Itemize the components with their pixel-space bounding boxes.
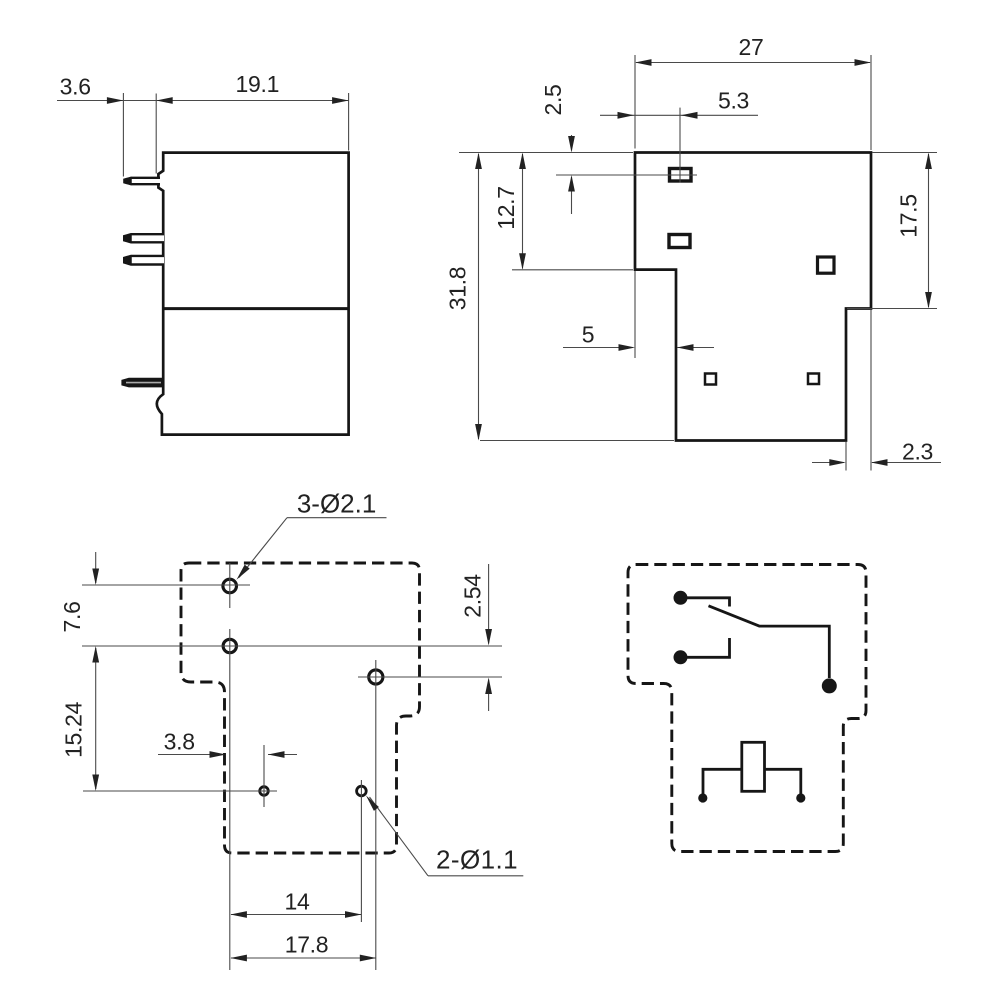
svg-text:5: 5 — [582, 321, 595, 347]
dimension 14 — [231, 914, 361, 916]
svg-text:2.5: 2.5 — [540, 84, 566, 115]
pin slot 1 — [670, 169, 692, 182]
pin 4 (bottom pin) — [123, 379, 164, 386]
dimension 15.24 — [95, 648, 97, 789]
coil right lead — [765, 769, 801, 794]
svg-text:3.8: 3.8 — [164, 729, 195, 755]
contact terminal dot 1 — [674, 591, 688, 605]
svg-text:31.8: 31.8 — [445, 267, 471, 311]
arrows 3.6 — [107, 97, 124, 104]
dimension 31.8 — [478, 154, 480, 439]
hole D (1.1mm) — [260, 787, 269, 796]
square hole large — [818, 257, 835, 273]
dimension 2.3 — [812, 462, 844, 464]
svg-text:7.6: 7.6 — [59, 601, 85, 632]
svg-text:17.5: 17.5 — [896, 194, 922, 238]
svg-text:2.3: 2.3 — [902, 438, 933, 464]
svg-text:5.3: 5.3 — [718, 87, 749, 113]
dimension 2.5 — [571, 135, 573, 151]
dimension 3.6 / 19.1 line — [57, 100, 349, 102]
hole A (2.1mm) — [223, 579, 237, 593]
svg-text:19.1: 19.1 — [236, 71, 280, 97]
arrow 19.1 right — [332, 97, 349, 104]
svg-text:2.54: 2.54 — [459, 574, 485, 618]
relay body side view — [157, 153, 349, 435]
dimension 17.5 — [928, 154, 930, 307]
svg-text:15.24: 15.24 — [60, 701, 86, 758]
svg-text:27: 27 — [739, 34, 764, 60]
pin 3 — [124, 256, 164, 265]
pin 2 — [124, 234, 164, 242]
pin slot 2 — [669, 235, 690, 248]
svg-text:2-Ø1.1: 2-Ø1.1 — [436, 845, 518, 875]
coil rectangle — [742, 742, 765, 791]
svg-text:3-Ø2.1: 3-Ø2.1 — [297, 489, 377, 519]
PCB footprint dashed outline — [181, 563, 420, 853]
contact terminal dot 2 — [674, 650, 688, 664]
NC contact lead — [681, 598, 730, 607]
dimension 7.6 — [95, 552, 97, 583]
svg-text:14: 14 — [285, 889, 310, 915]
slot 1 centerline — [556, 174, 697, 176]
square hole small right — [808, 374, 819, 385]
coil terminal dot 5 — [796, 793, 805, 802]
svg-text:12.7: 12.7 — [493, 186, 519, 230]
hole E (1.1mm) — [357, 786, 367, 796]
coil terminal dot 4 — [698, 793, 707, 802]
dimension 5 — [563, 347, 633, 349]
top edge extension left — [459, 152, 633, 154]
extension lines — [122, 93, 124, 177]
dimension 27 — [636, 62, 870, 64]
wiring diagram dashed outline — [628, 565, 866, 852]
svg-text:3.6: 3.6 — [60, 74, 91, 100]
relay body rear view — [635, 153, 871, 441]
hole B (2.1mm) — [223, 639, 236, 652]
body parting line — [163, 307, 348, 310]
coil left lead — [703, 769, 742, 794]
movable blade and common lead — [709, 606, 830, 678]
dimension 17.8 — [231, 957, 376, 959]
NO contact lead — [681, 638, 730, 657]
dimension 12.7 — [522, 154, 524, 269]
dimension 3.8 — [158, 754, 224, 756]
pin 1 (top left pin) — [124, 178, 160, 184]
dimension 5.3 — [600, 114, 758, 116]
contact terminal dot 3 (common) — [822, 678, 837, 693]
square hole small left — [705, 374, 716, 385]
dimension 2.54 — [488, 564, 490, 644]
hole C (2.1mm) — [369, 670, 383, 684]
svg-text:17.8: 17.8 — [285, 932, 329, 958]
